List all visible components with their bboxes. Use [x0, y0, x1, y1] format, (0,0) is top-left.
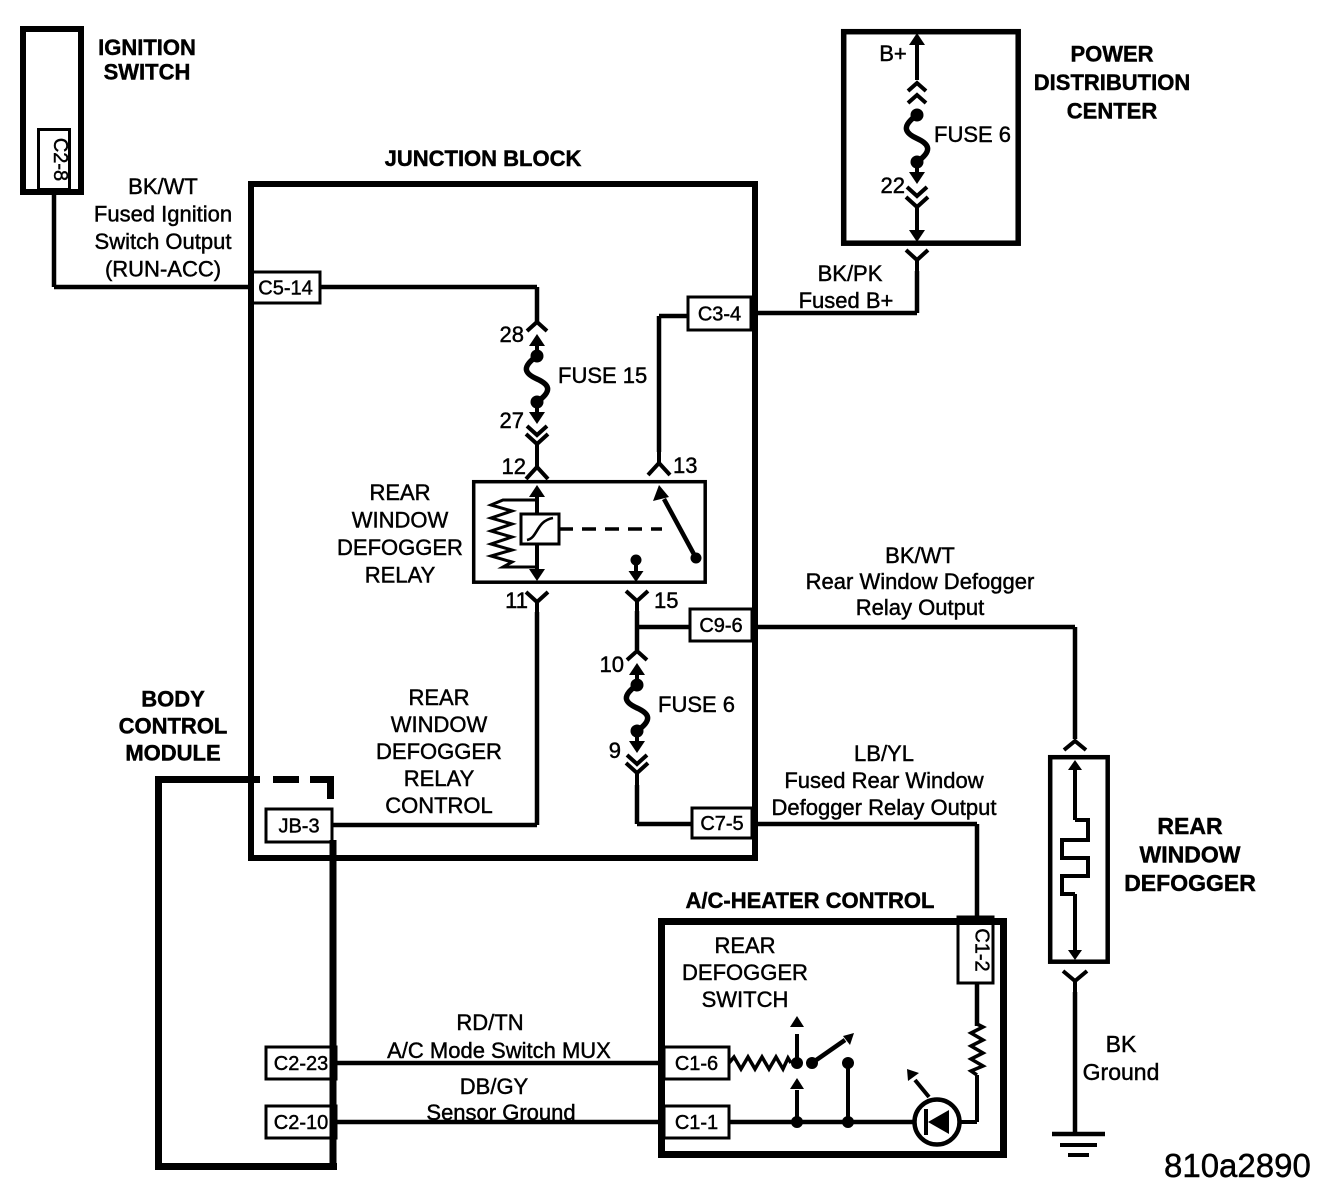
svg-text:DEFOGGER: DEFOGGER	[682, 960, 808, 985]
svg-text:BK/WT: BK/WT	[128, 174, 198, 199]
svg-text:POWER: POWER	[1070, 42, 1153, 67]
svg-text:JUNCTION BLOCK: JUNCTION BLOCK	[385, 146, 582, 171]
svg-text:810a2890: 810a2890	[1164, 1147, 1311, 1184]
svg-text:WINDOW: WINDOW	[1140, 842, 1241, 868]
svg-text:BK/PK: BK/PK	[818, 261, 883, 286]
svg-text:Relay Output: Relay Output	[856, 595, 984, 620]
svg-text:9: 9	[609, 738, 621, 763]
svg-text:WINDOW: WINDOW	[391, 712, 488, 737]
svg-text:12: 12	[502, 454, 526, 479]
svg-text:22: 22	[881, 173, 905, 198]
svg-text:BK/WT: BK/WT	[885, 543, 955, 568]
svg-text:BODY: BODY	[141, 687, 205, 712]
svg-text:C5-14: C5-14	[258, 278, 312, 300]
svg-text:27: 27	[500, 408, 524, 433]
svg-text:28: 28	[500, 322, 524, 347]
svg-text:A/C-HEATER CONTROL: A/C-HEATER CONTROL	[686, 888, 935, 913]
svg-text:C7-5: C7-5	[700, 813, 743, 835]
svg-text:REAR: REAR	[408, 685, 469, 710]
svg-text:C1-2: C1-2	[971, 928, 993, 971]
svg-text:BK: BK	[1106, 1031, 1137, 1057]
svg-text:DISTRIBUTION: DISTRIBUTION	[1034, 70, 1190, 95]
svg-text:DEFOGGER: DEFOGGER	[1124, 870, 1256, 896]
svg-text:DB/GY: DB/GY	[460, 1074, 529, 1099]
svg-text:C2-8: C2-8	[49, 138, 71, 181]
svg-text:A/C Mode Switch MUX: A/C Mode Switch MUX	[387, 1038, 611, 1063]
svg-text:Ground: Ground	[1083, 1059, 1160, 1085]
svg-text:SWITCH: SWITCH	[702, 987, 789, 1012]
svg-text:13: 13	[673, 453, 697, 478]
svg-text:CONTROL: CONTROL	[385, 793, 493, 818]
svg-text:DEFOGGER: DEFOGGER	[376, 739, 502, 764]
svg-text:SWITCH: SWITCH	[104, 59, 191, 84]
svg-text:LB/YL: LB/YL	[854, 741, 914, 766]
svg-text:Fused B+: Fused B+	[799, 288, 894, 313]
svg-text:FUSE 6: FUSE 6	[658, 692, 735, 717]
svg-text:10: 10	[600, 652, 624, 677]
svg-text:CENTER: CENTER	[1067, 99, 1158, 124]
svg-text:Defogger Relay Output: Defogger Relay Output	[771, 795, 996, 820]
svg-text:B+: B+	[879, 41, 907, 66]
svg-text:REAR: REAR	[714, 933, 775, 958]
svg-text:REAR: REAR	[369, 480, 430, 505]
svg-text:(RUN-ACC): (RUN-ACC)	[105, 257, 221, 282]
svg-text:IGNITION: IGNITION	[98, 35, 196, 60]
svg-text:C1-6: C1-6	[675, 1053, 718, 1075]
svg-text:C9-6: C9-6	[699, 615, 742, 637]
svg-text:FUSE 15: FUSE 15	[558, 363, 647, 388]
svg-text:Fused Rear Window: Fused Rear Window	[784, 768, 983, 793]
svg-text:C2-23: C2-23	[274, 1053, 328, 1075]
svg-text:RD/TN: RD/TN	[456, 1010, 523, 1035]
svg-text:C1-1: C1-1	[675, 1112, 718, 1134]
svg-text:Switch Output: Switch Output	[95, 229, 232, 254]
svg-text:C2-10: C2-10	[274, 1112, 328, 1134]
svg-text:11: 11	[505, 588, 528, 613]
svg-text:RELAY: RELAY	[365, 563, 436, 588]
svg-text:REAR: REAR	[1157, 813, 1223, 839]
svg-text:MODULE: MODULE	[125, 741, 220, 766]
svg-text:CONTROL: CONTROL	[119, 714, 228, 739]
svg-text:JB-3: JB-3	[278, 816, 319, 838]
svg-text:DEFOGGER: DEFOGGER	[337, 535, 463, 560]
svg-text:RELAY: RELAY	[404, 766, 475, 791]
svg-text:C3-4: C3-4	[698, 304, 741, 326]
svg-text:Rear Window Defogger: Rear Window Defogger	[806, 569, 1035, 594]
svg-text:15: 15	[654, 588, 678, 613]
svg-text:Sensor Ground: Sensor Ground	[426, 1100, 575, 1125]
svg-text:WINDOW: WINDOW	[352, 508, 449, 533]
svg-text:Fused Ignition: Fused Ignition	[94, 202, 232, 227]
svg-text:FUSE 6: FUSE 6	[934, 122, 1011, 147]
